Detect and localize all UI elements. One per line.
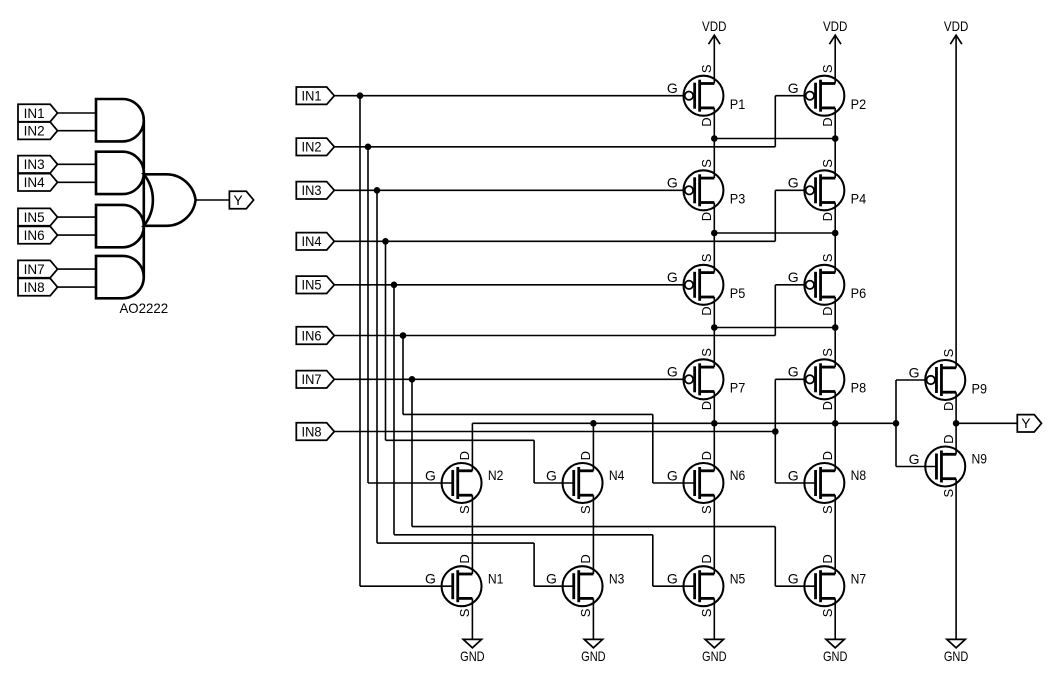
power VDD 1	[702, 18, 727, 44]
transistor N4 (NMOS)	[546, 451, 625, 514]
svg-text:S: S	[699, 64, 714, 73]
wire IN8 vertical	[774, 379, 776, 483]
input flag IN3	[296, 182, 334, 199]
svg-text:IN3: IN3	[24, 156, 45, 172]
wire IN3 jog right	[377, 542, 534, 544]
wire IN8 to P8 gate	[775, 378, 806, 380]
junction node A at P8/N8	[832, 420, 839, 427]
input flag IN2 (symbol)	[18, 122, 58, 139]
svg-text:D: D	[820, 451, 835, 460]
power VDD 2	[823, 18, 848, 44]
input flag IN8	[296, 423, 334, 440]
svg-text:GND: GND	[581, 648, 606, 664]
svg-text:D: D	[820, 117, 835, 126]
svg-text:N6: N6	[730, 467, 746, 483]
svg-text:S: S	[457, 505, 472, 514]
wire IN2 to AND gate	[58, 130, 97, 132]
svg-text:G: G	[425, 571, 436, 587]
svg-text:G: G	[788, 269, 799, 285]
wire P8 drain to node A	[834, 392, 836, 424]
wire P6 drain to P8 source	[834, 297, 836, 367]
ground GND 4	[823, 639, 848, 663]
input flag IN7	[296, 371, 334, 388]
wire N2 source to N1 drain	[471, 495, 473, 574]
svg-text:Y: Y	[233, 192, 243, 208]
svg-text:VDD: VDD	[944, 18, 969, 34]
svg-text:D: D	[820, 306, 835, 315]
wire IN2 horizontal	[334, 146, 775, 148]
transistor P5 (PMOS)	[667, 253, 746, 316]
svg-text:D: D	[699, 212, 714, 221]
svg-text:N4: N4	[609, 467, 625, 483]
wire P5 drain to P7 source	[713, 297, 715, 367]
wire IN7 down	[411, 379, 413, 526]
wire N9 source to GND	[955, 479, 957, 640]
svg-text:S: S	[699, 348, 714, 357]
svg-text:S: S	[941, 348, 956, 357]
and-gate A3	[96, 205, 144, 247]
svg-text:G: G	[788, 364, 799, 380]
power VDD 3	[944, 18, 969, 44]
wire IN6 to N6 gate	[653, 482, 695, 484]
svg-text:IN2: IN2	[24, 123, 45, 139]
wire N9 drain to Y	[955, 423, 957, 454]
junction node A at inverter gates	[893, 420, 900, 427]
transistor N8 (NMOS)	[788, 451, 867, 514]
wire N1 source to GND	[471, 598, 473, 639]
svg-text:VDD: VDD	[702, 18, 727, 34]
transistor P6 (PMOS)	[788, 253, 867, 316]
wire IN3 jog down	[533, 543, 535, 586]
wire P4 drain to P6 source	[834, 203, 836, 273]
node A horizontal	[472, 422, 896, 424]
svg-text:P3: P3	[730, 191, 746, 207]
bus joining AND outputs to OR inputs	[143, 120, 146, 277]
wire IN5 down	[393, 285, 395, 535]
svg-text:IN5: IN5	[302, 277, 322, 293]
wire P2 drain to P4 source	[834, 108, 836, 178]
wire N6 drain to node A	[713, 423, 715, 471]
svg-text:N8: N8	[851, 467, 867, 483]
wire IN4 horizontal	[334, 240, 775, 242]
svg-text:G: G	[546, 467, 557, 483]
input flag IN1 (symbol)	[18, 104, 58, 121]
svg-text:S: S	[820, 64, 835, 73]
svg-text:G: G	[788, 571, 799, 587]
svg-text:IN7: IN7	[24, 261, 45, 277]
wire N5 source to GND	[713, 598, 715, 639]
svg-text:IN4: IN4	[302, 233, 322, 249]
wire IN4 down	[385, 241, 387, 440]
junction IN2 tap	[365, 144, 372, 151]
junction IN8 tap	[772, 428, 779, 435]
input flag IN4 (symbol)	[18, 174, 58, 191]
wire to N9 gate	[896, 466, 936, 468]
svg-text:G: G	[667, 571, 678, 587]
svg-text:P6: P6	[851, 285, 867, 301]
wire P9 drain to Y	[955, 392, 957, 423]
wire IN2 up	[774, 96, 776, 147]
transistor N5 (NMOS)	[667, 554, 746, 617]
wire N4 source to N3 drain	[592, 495, 594, 574]
svg-text:N7: N7	[851, 570, 867, 586]
wire IN6 to P6 gate	[775, 284, 806, 286]
svg-text:IN3: IN3	[302, 182, 322, 198]
svg-text:G: G	[667, 269, 678, 285]
ground GND 1	[460, 639, 485, 663]
svg-text:GND: GND	[823, 648, 848, 664]
wire P3 drain to P5 source	[713, 203, 715, 273]
junction IN7 tap	[409, 376, 416, 383]
svg-text:S: S	[578, 608, 593, 617]
svg-text:IN8: IN8	[24, 279, 45, 295]
input flag IN1	[296, 87, 334, 104]
svg-text:N3: N3	[609, 570, 625, 586]
wire IN2 down	[367, 147, 369, 483]
svg-text:D: D	[699, 451, 714, 460]
junction IN1 tap	[357, 92, 364, 99]
svg-text:G: G	[425, 467, 436, 483]
svg-text:IN1: IN1	[302, 88, 322, 104]
svg-text:G: G	[667, 467, 678, 483]
svg-text:D: D	[457, 554, 472, 563]
wire node A up to P9 gate	[895, 380, 897, 423]
input flag IN2	[296, 138, 334, 155]
input flag IN3 (symbol)	[18, 156, 58, 173]
wire VDD to P2 source	[834, 35, 836, 83]
transistor N3 (NMOS)	[546, 554, 625, 617]
wire P1 drain to P3 source	[713, 108, 715, 178]
svg-text:D: D	[820, 554, 835, 563]
wire IN6 up	[774, 285, 776, 336]
wire IN5 jog down	[652, 535, 654, 586]
wire IN2 to N2 gate	[368, 482, 453, 484]
wire IN6 jog right	[403, 413, 653, 415]
transistor P4 (PMOS)	[788, 159, 867, 222]
svg-text:IN6: IN6	[24, 227, 45, 243]
wire IN6 down	[402, 336, 404, 415]
svg-text:S: S	[578, 505, 593, 514]
svg-text:GND: GND	[702, 648, 727, 664]
transistor N7 (NMOS)	[788, 554, 867, 617]
svg-text:D: D	[699, 554, 714, 563]
wire IN4 to P4 gate	[775, 189, 806, 191]
junction link left 2	[711, 230, 718, 237]
wire IN7 jog right	[412, 526, 775, 528]
svg-text:S: S	[820, 253, 835, 262]
wire IN1 to AND gate	[58, 112, 97, 114]
wire IN1 down	[359, 96, 361, 587]
svg-text:D: D	[699, 306, 714, 315]
transistor N1 (NMOS)	[425, 554, 504, 617]
wire N8 drain to node A	[834, 423, 836, 471]
junction link right 2	[832, 230, 839, 237]
wire IN8 to AND gate	[58, 286, 97, 288]
svg-text:IN7: IN7	[302, 371, 322, 387]
junction IN3 tap	[374, 187, 381, 194]
input flag IN5 (symbol)	[18, 208, 58, 225]
wire IN7 to AND gate	[58, 268, 97, 270]
wire IN1 to P1 gate	[334, 95, 685, 97]
svg-text:G: G	[788, 175, 799, 191]
wire IN3 to N3 gate	[534, 585, 574, 587]
svg-text:IN6: IN6	[302, 327, 322, 343]
wire VDD to P1 source	[713, 35, 715, 83]
and-gate A2	[96, 152, 144, 194]
junction IN6 tap	[400, 332, 407, 339]
output flag Y (symbol)	[229, 191, 253, 208]
ground GND 3	[702, 639, 727, 663]
svg-text:S: S	[699, 159, 714, 168]
input flag IN6	[296, 327, 334, 344]
svg-text:G: G	[546, 571, 557, 587]
wire IN4 jog right	[386, 439, 535, 441]
svg-text:VDD: VDD	[823, 18, 848, 34]
svg-text:IN4: IN4	[24, 174, 45, 190]
wire P7 drain to node A	[713, 392, 715, 424]
svg-text:GND: GND	[460, 648, 485, 664]
wire IN7 jog down	[774, 527, 776, 587]
svg-text:D: D	[699, 401, 714, 410]
input flag IN8 (symbol)	[18, 278, 58, 295]
wire N3 source to GND	[592, 598, 594, 639]
transistor N9 (NMOS)	[909, 435, 988, 498]
transistor P9 (PMOS)	[909, 348, 988, 411]
svg-text:IN1: IN1	[24, 105, 45, 121]
transistor N6 (NMOS)	[667, 451, 746, 514]
wire IN5 to N5 gate	[653, 585, 695, 587]
svg-text:P4: P4	[851, 191, 867, 207]
svg-text:GND: GND	[944, 648, 969, 664]
wire drain link row 1	[714, 138, 835, 140]
wire N8 source to N7 drain	[834, 495, 836, 574]
wire N4 drain to node A	[592, 423, 594, 471]
svg-text:P8: P8	[851, 380, 867, 396]
input flag IN6 (symbol)	[18, 226, 58, 243]
wire IN3 to AND gate	[58, 163, 97, 165]
junction link right 1	[832, 135, 839, 142]
svg-text:S: S	[699, 505, 714, 514]
wire IN4 to AND gate	[58, 181, 97, 183]
svg-text:D: D	[820, 401, 835, 410]
input flag IN4	[296, 233, 334, 250]
svg-text:D: D	[941, 402, 956, 411]
svg-text:N1: N1	[488, 570, 504, 586]
svg-text:S: S	[457, 608, 472, 617]
junction link left 1	[711, 135, 718, 142]
svg-text:G: G	[909, 451, 920, 467]
ground GND 2	[581, 639, 606, 663]
wire IN7 to P7 gate	[334, 378, 685, 380]
svg-text:P9: P9	[972, 380, 988, 396]
svg-text:Y: Y	[1021, 415, 1031, 431]
input flag IN7 (symbol)	[18, 260, 58, 277]
wire IN5 to AND gate	[58, 216, 97, 218]
svg-text:S: S	[820, 159, 835, 168]
junction link right 3	[832, 324, 839, 331]
svg-text:N2: N2	[488, 467, 504, 483]
transistor P2 (PMOS)	[788, 64, 867, 127]
svg-text:D: D	[578, 451, 593, 460]
svg-text:G: G	[788, 80, 799, 96]
wire node A down to N9 gate	[895, 423, 897, 466]
wire IN8 to N8 gate	[775, 482, 815, 484]
wire IN6 to AND gate	[58, 234, 97, 236]
transistor N2 (NMOS)	[425, 451, 504, 514]
wire IN3 to P3 gate	[334, 189, 685, 191]
junction IN5 tap	[391, 282, 398, 289]
svg-text:IN2: IN2	[302, 139, 322, 155]
svg-text:G: G	[667, 80, 678, 96]
svg-text:IN5: IN5	[24, 209, 45, 225]
svg-text:P2: P2	[851, 96, 867, 112]
svg-text:S: S	[820, 608, 835, 617]
junction IN4 tap	[382, 238, 389, 245]
wire IN7 to N7 gate	[775, 585, 815, 587]
svg-text:P7: P7	[730, 380, 746, 396]
wire N7 source to GND	[834, 598, 836, 639]
transistor P8 (PMOS)	[788, 348, 867, 411]
wire drain link row 2	[714, 232, 835, 234]
wire to P9 gate	[896, 379, 927, 381]
svg-text:G: G	[909, 364, 920, 380]
wire N2 drain to node A	[471, 423, 473, 471]
wire IN3 down	[376, 190, 378, 543]
transistor P3 (PMOS)	[667, 159, 746, 222]
output flag Y	[1017, 415, 1041, 432]
svg-text:IN8: IN8	[302, 423, 322, 439]
wire IN4 jog down	[533, 440, 535, 483]
and-gate A1	[96, 99, 144, 141]
svg-text:S: S	[699, 608, 714, 617]
junction node A at N4	[590, 420, 597, 427]
svg-text:D: D	[941, 435, 956, 444]
svg-text:N5: N5	[730, 570, 746, 586]
wire N6 source to N5 drain	[713, 495, 715, 574]
wire Y output	[956, 422, 1017, 424]
wire IN4 to N4 gate	[534, 482, 574, 484]
svg-text:P1: P1	[730, 96, 746, 112]
wire IN6 jog down	[652, 414, 654, 483]
input flag IN5	[296, 276, 334, 293]
and-gate A4	[96, 256, 144, 298]
wire VDD to P9 source	[955, 35, 957, 368]
svg-text:P5: P5	[730, 285, 746, 301]
wire IN4 up	[774, 190, 776, 241]
junction node A at P7/N6	[711, 420, 718, 427]
wire IN5 to P5 gate	[334, 284, 685, 286]
svg-text:D: D	[699, 117, 714, 126]
wire IN5 jog right	[394, 534, 653, 536]
svg-text:G: G	[667, 364, 678, 380]
transistor P1 (PMOS)	[667, 64, 746, 127]
svg-text:D: D	[578, 554, 593, 563]
junction Y at inverter drains	[953, 420, 960, 427]
wire drain link row 3	[714, 327, 835, 329]
wire OR output to Y flag	[196, 199, 230, 201]
svg-text:N9: N9	[972, 451, 988, 467]
wire IN6 horizontal	[334, 335, 775, 337]
svg-text:S: S	[941, 489, 956, 498]
svg-text:AO2222: AO2222	[119, 300, 168, 316]
svg-text:G: G	[788, 467, 799, 483]
svg-text:D: D	[820, 212, 835, 221]
svg-text:S: S	[820, 505, 835, 514]
svg-text:D: D	[457, 451, 472, 460]
transistor P7 (PMOS)	[667, 348, 746, 411]
svg-text:S: S	[820, 348, 835, 357]
svg-text:S: S	[699, 253, 714, 262]
or-gate	[144, 174, 196, 226]
junction link left 3	[711, 324, 718, 331]
wire IN8 horizontal	[334, 431, 775, 433]
wire IN1 to N1 gate	[360, 585, 453, 587]
svg-text:G: G	[667, 175, 678, 191]
wire IN2 to P2 gate	[775, 95, 806, 97]
ground GND 5	[944, 639, 969, 663]
